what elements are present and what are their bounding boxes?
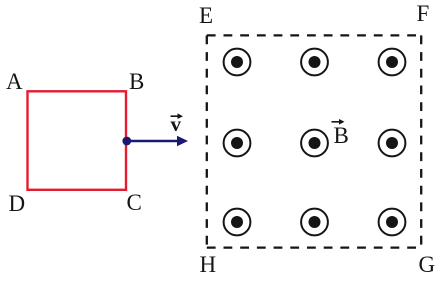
field dot row3 col1 [224, 209, 251, 236]
label v [171, 112, 184, 136]
svg-text:G: G [419, 252, 436, 277]
field dot row3 col3 [379, 209, 406, 236]
svg-text:H: H [200, 252, 217, 277]
velocity vector v [127, 136, 188, 146]
svg-text:B: B [334, 123, 349, 148]
svg-text:F: F [417, 1, 430, 26]
svg-text:D: D [9, 191, 26, 216]
conducting loop ABCD [28, 91, 127, 190]
field dot row2 col3 [379, 130, 406, 157]
field dot row1 col2 [301, 49, 328, 76]
svg-text:A: A [6, 69, 23, 94]
svg-text:E: E [199, 3, 213, 28]
field dot row1 col3 [379, 49, 406, 76]
field region boundary EFGH (dashed) [207, 35, 421, 247]
node on side BC [122, 137, 131, 146]
field dot row2 col1 [224, 130, 251, 157]
svg-text:C: C [127, 190, 142, 215]
field dot row3 col2 [301, 209, 328, 236]
field dot row1 col1 [224, 49, 251, 76]
label B (field) [332, 119, 349, 148]
svg-text:B: B [129, 69, 144, 94]
field dot row2 col2 [301, 130, 328, 157]
